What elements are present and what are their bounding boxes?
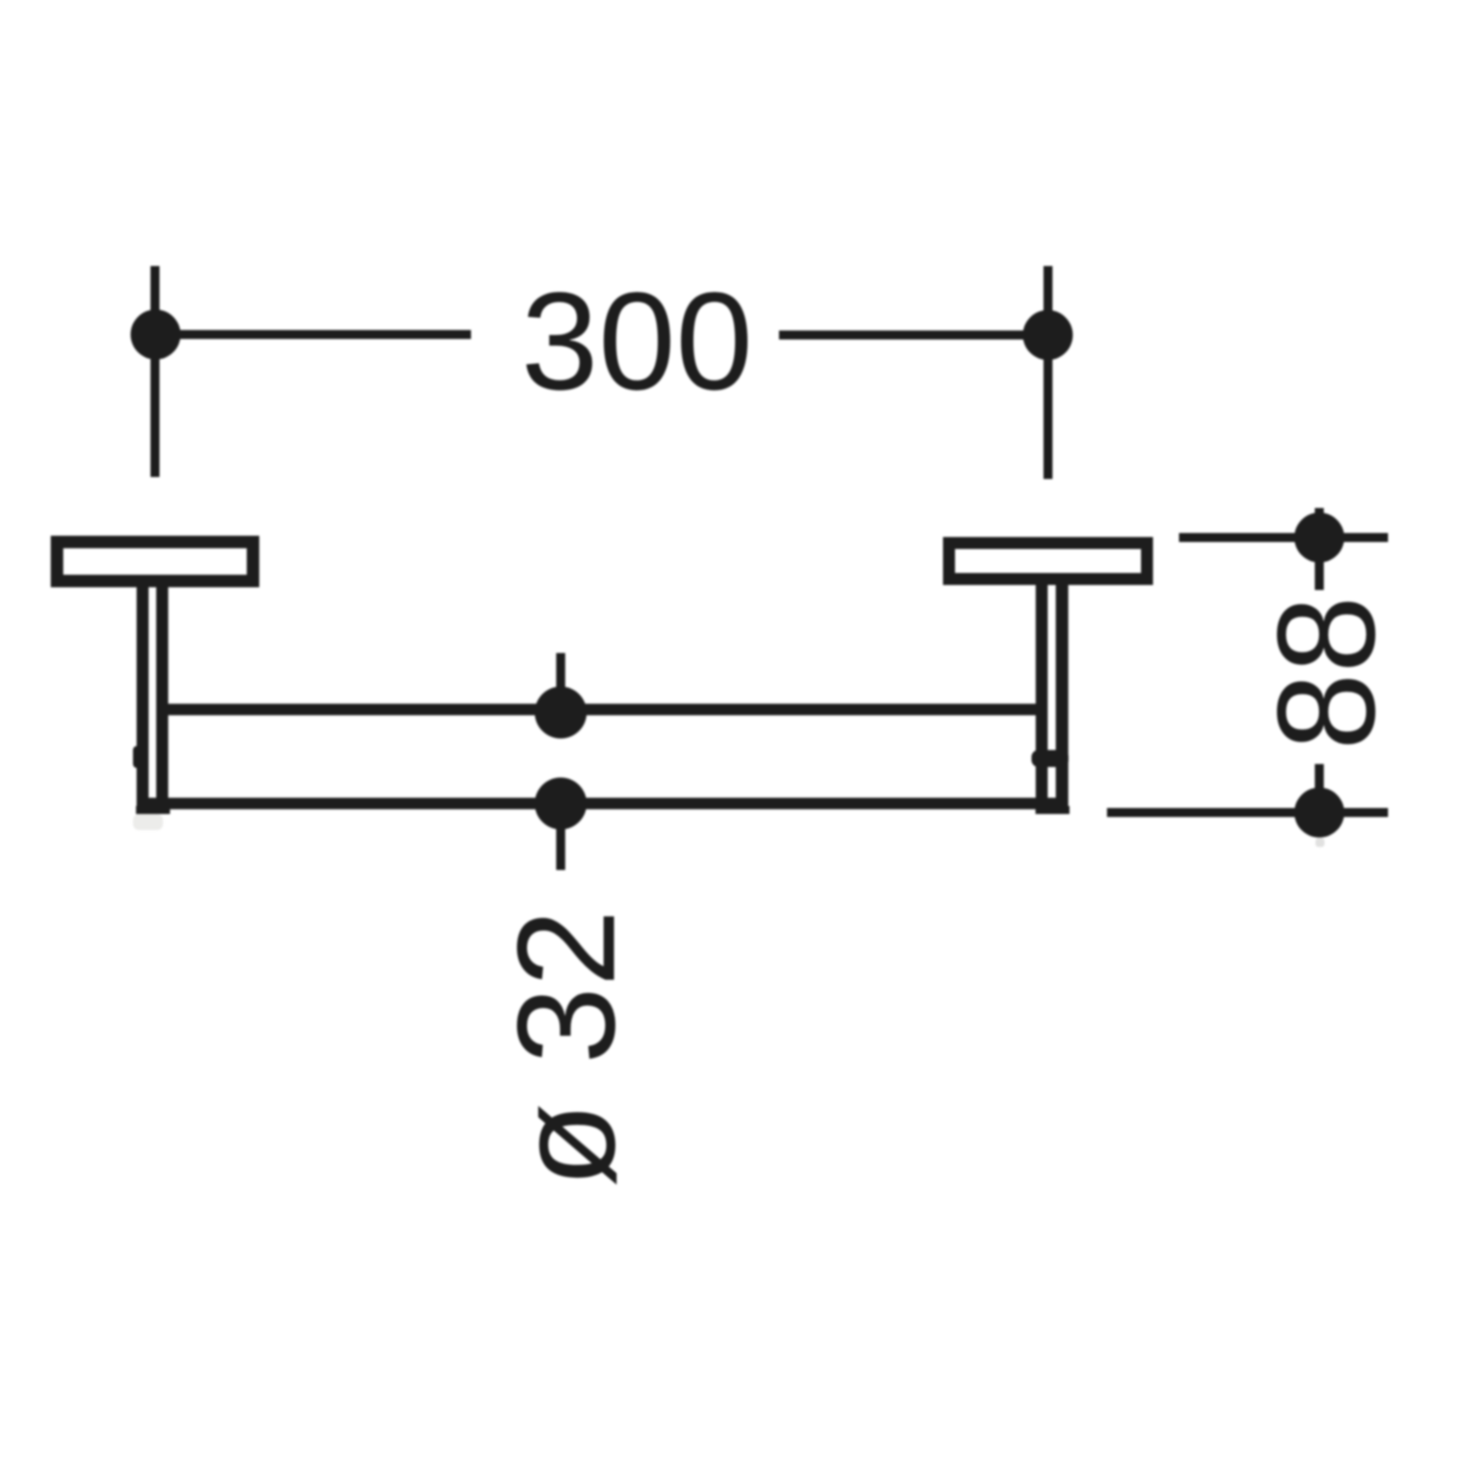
node: top dimension dot left (131, 310, 181, 360)
wire: top dimension extension line right (1044, 266, 1053, 479)
bar top edge (160, 704, 1044, 716)
joint bump left post (133, 746, 142, 768)
node: upper bar dot (535, 687, 587, 739)
faint mark below lower 88 dot (1316, 838, 1325, 847)
faint mark below left post (133, 814, 163, 830)
post left bottom cap (136, 806, 170, 814)
node: lower bar dot (535, 778, 587, 830)
svg-text:ø 32: ø 32 (489, 909, 644, 1187)
post left inner line (156, 585, 168, 809)
wire: top dimension extension line left (151, 266, 160, 477)
wire: 88 dimension line upper (1179, 533, 1388, 542)
post right outer line (1056, 585, 1069, 809)
svg-text:88: 88 (1249, 596, 1404, 751)
wall plate right (949, 543, 1147, 579)
wire: axis tick above upper bar dot (556, 653, 565, 712)
wire: axis tick below lower bar dot (556, 804, 565, 870)
svg-text:300: 300 (521, 264, 753, 419)
wire: 88 dimension line lower (1107, 808, 1388, 817)
bar bottom edge (143, 798, 1064, 810)
node: top dimension dot right (1023, 310, 1073, 360)
post right bottom cap (1036, 806, 1070, 814)
joint bump right post (1032, 750, 1069, 767)
wire: top dimension line right segment (779, 331, 1048, 340)
wire: 88 vertical connector upper segment (1315, 508, 1324, 590)
wire: 88 vertical connector lower segment (1315, 764, 1324, 800)
wall plate left (57, 542, 253, 581)
wire: top dimension line left segment (155, 330, 471, 339)
post right inner line (1036, 585, 1048, 809)
node: 88 dimension dot lower (1294, 788, 1344, 838)
node: 88 dimension dot upper (1294, 513, 1344, 563)
post left outer line (137, 585, 149, 809)
